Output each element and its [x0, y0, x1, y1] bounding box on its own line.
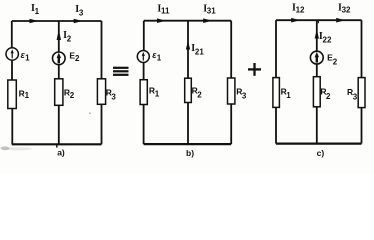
current arrow I1	[30, 3, 40, 23]
wire middle lower c	[316, 107, 318, 144]
svg-text:22: 22	[323, 35, 332, 44]
svg-text:2: 2	[197, 91, 202, 100]
wire right upper b	[230, 21, 232, 78]
source E2 (a)	[53, 50, 81, 64]
equivalence sign	[113, 68, 129, 75]
wire left lower a	[11, 108, 13, 144]
current arrow I32	[336, 3, 351, 23]
resistor R3 (b)	[228, 78, 247, 104]
wire bottom c	[276, 143, 362, 145]
wire bottom a	[12, 143, 102, 145]
current arrow I21	[186, 41, 205, 56]
wire left upper a	[11, 21, 13, 48]
wire middle mid a	[58, 64, 60, 78]
svg-text:1: 1	[286, 91, 291, 100]
svg-text:3: 3	[79, 8, 84, 17]
wire left upper b	[143, 21, 145, 51]
wire bottom b	[144, 143, 232, 145]
svg-text:2: 2	[67, 34, 72, 43]
current arrow I11	[157, 3, 170, 23]
svg-text:21: 21	[195, 47, 204, 56]
resistor R2 (a)	[55, 79, 75, 106]
wire left upper c	[275, 20, 277, 77]
resistor R1 (b)	[140, 80, 160, 105]
svg-text:3: 3	[111, 92, 116, 101]
wire middle upper a	[58, 21, 60, 52]
wire top b	[144, 20, 231, 22]
plus sign	[248, 63, 261, 76]
source E1 (a)	[6, 48, 30, 63]
resistor R1 (c)	[273, 78, 291, 108]
wire left lower c	[275, 107, 277, 143]
current arrow I3	[74, 4, 84, 23]
wire right lower c	[361, 108, 363, 144]
wire right upper c	[361, 20, 363, 77]
current arrow I22	[315, 30, 332, 45]
wire middle lower a	[58, 105, 60, 144]
svg-text:31: 31	[207, 7, 216, 16]
svg-text:1: 1	[35, 7, 40, 16]
svg-text:c): c)	[317, 148, 325, 158]
resistor R2 (c)	[313, 77, 331, 107]
wire left mid a	[11, 60, 13, 80]
svg-text:2: 2	[333, 57, 338, 66]
wire middle upper c	[316, 20, 318, 51]
wire top c	[276, 19, 362, 21]
current arrow I2	[57, 30, 72, 44]
svg-text:2: 2	[326, 92, 331, 101]
resistor R3 (c)	[347, 78, 365, 108]
resistor R2 (b)	[185, 78, 203, 102]
current arrow I31	[203, 3, 216, 23]
resistor R3 (a)	[97, 79, 116, 105]
svg-text:b): b)	[186, 148, 194, 158]
svg-text:12: 12	[296, 6, 305, 15]
source E1 (b)	[137, 50, 161, 62]
wire middle lower b	[187, 103, 189, 145]
svg-text:1: 1	[155, 90, 160, 99]
svg-text:a): a)	[57, 148, 65, 158]
scan smudge bottom-left	[1, 146, 33, 150]
wire right lower a	[101, 104, 103, 144]
source E2 (c)	[310, 51, 337, 66]
svg-text:2: 2	[70, 91, 75, 100]
junction tick c top	[317, 20, 319, 23]
wire top a	[12, 20, 102, 22]
resistor R1 (a)	[8, 80, 30, 109]
wire middle mid c	[316, 64, 318, 77]
svg-text:11: 11	[161, 7, 170, 16]
svg-text:1: 1	[25, 91, 30, 100]
scan speck	[89, 113, 91, 114]
wire right upper a	[101, 21, 103, 79]
svg-text:3: 3	[353, 92, 358, 101]
svg-text:32: 32	[342, 6, 351, 15]
wire middle upper b	[187, 21, 189, 78]
wire right lower b	[230, 104, 232, 144]
wire left lower b	[143, 105, 145, 145]
svg-text:3: 3	[242, 91, 247, 100]
svg-text:1: 1	[25, 53, 30, 62]
current arrow I12	[291, 3, 305, 23]
junction tick a bottom	[56, 144, 58, 147]
svg-text:1: 1	[157, 54, 162, 63]
svg-text:2: 2	[75, 54, 80, 63]
wire left mid b	[143, 62, 145, 79]
